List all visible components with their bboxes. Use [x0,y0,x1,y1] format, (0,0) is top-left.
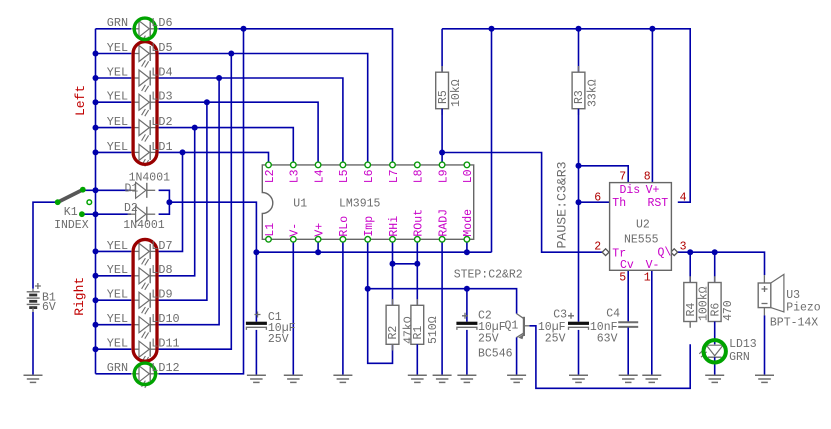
svg-text:LD2: LD2 [151,115,172,129]
svg-text:YEL: YEL [107,312,128,326]
svg-text:510Ω: 510Ω [427,316,440,344]
svg-text:LD5: LD5 [151,41,172,55]
svg-text:Mode: Mode [462,209,475,237]
svg-text:L9: L9 [437,169,450,183]
svg-text:RLo: RLo [338,216,351,237]
svg-text:10kΩ: 10kΩ [450,79,463,107]
svg-text:6: 6 [594,191,601,204]
svg-text:YEL: YEL [107,288,128,302]
svg-text:YEL: YEL [107,263,128,277]
svg-text:LD9: LD9 [151,288,172,302]
svg-text:Imp: Imp [363,216,376,237]
svg-text:33kΩ: 33kΩ [586,79,599,107]
svg-text:GRN: GRN [107,16,128,30]
svg-text:Q1: Q1 [505,320,519,333]
svg-text:L2: L2 [264,169,277,183]
svg-text:LD7: LD7 [151,239,172,253]
svg-text:YEL: YEL [107,41,128,55]
svg-text:LD12: LD12 [151,361,179,375]
svg-text:L5: L5 [338,169,351,183]
svg-text:LD8: LD8 [151,263,172,277]
svg-text:L1: L1 [264,223,277,237]
svg-text:R6: R6 [709,303,722,317]
svg-text:INDEX: INDEX [54,219,89,232]
svg-text:R2: R2 [387,326,400,340]
svg-text:LM3915: LM3915 [339,198,381,211]
svg-text:4: 4 [680,191,687,204]
svg-text:NE555: NE555 [624,234,659,247]
svg-text:L4: L4 [313,169,326,183]
svg-text:RHi: RHi [388,216,401,237]
svg-text:C4: C4 [606,308,620,321]
svg-text:YEL: YEL [107,90,128,104]
svg-text:D1: D1 [125,182,139,195]
svg-text:Th: Th [612,197,626,210]
svg-text:Dis: Dis [620,184,641,197]
svg-text:D2: D2 [124,202,138,215]
svg-text:5: 5 [619,272,626,285]
svg-text:RST: RST [648,197,669,210]
svg-text:LD10: LD10 [151,312,179,326]
svg-text:Right: Right [72,277,87,316]
svg-text:470: 470 [722,300,735,321]
svg-text:YEL: YEL [107,337,128,351]
svg-text:63V: 63V [597,333,618,346]
svg-text:25V: 25V [478,333,499,346]
svg-text:Cv: Cv [620,259,634,272]
svg-text:U2: U2 [636,219,650,232]
svg-text:25V: 25V [268,333,289,346]
svg-text:LD11: LD11 [151,337,179,351]
svg-text:25V: 25V [545,333,566,346]
svg-text:BC546: BC546 [478,348,513,361]
svg-text:STEP:C2&R2: STEP:C2&R2 [454,269,523,282]
svg-text:1N4001: 1N4001 [123,219,165,232]
svg-text:6V: 6V [42,301,56,314]
svg-text:C3: C3 [553,309,567,322]
svg-text:7: 7 [619,171,626,184]
svg-text:L0: L0 [462,169,475,183]
svg-text:1: 1 [644,272,651,285]
svg-text:L8: L8 [413,169,426,183]
svg-text:Piezo: Piezo [786,301,821,314]
svg-text:YEL: YEL [107,140,128,154]
svg-text:LD1: LD1 [151,140,172,154]
svg-text:R4: R4 [685,303,698,317]
svg-text:L7: L7 [388,169,401,183]
svg-text:LD3: LD3 [151,90,172,104]
svg-text:YEL: YEL [107,239,128,253]
svg-text:U3: U3 [786,289,800,302]
svg-text:U1: U1 [293,198,307,211]
svg-text:BPT-14X: BPT-14X [770,316,818,329]
svg-text:V+: V+ [646,184,660,197]
svg-text:R5: R5 [437,90,450,104]
svg-text:8: 8 [644,171,651,184]
svg-text:LD13: LD13 [729,338,757,351]
svg-text:Left: Left [73,85,88,116]
svg-text:GRN: GRN [729,351,750,364]
svg-text:R3: R3 [573,90,586,104]
svg-text:L6: L6 [363,169,376,183]
svg-text:PAUSE:C3&R3: PAUSE:C3&R3 [554,161,569,248]
svg-text:LD6: LD6 [151,16,172,30]
svg-text:V-: V- [289,223,302,237]
svg-text:2: 2 [594,240,601,253]
svg-text:GRN: GRN [107,361,128,375]
svg-text:LD4: LD4 [151,65,172,79]
svg-text:ROut: ROut [413,209,426,237]
svg-text:3: 3 [680,240,687,253]
svg-text:V-: V- [646,259,660,272]
svg-text:YEL: YEL [107,115,128,129]
svg-text:L3: L3 [289,169,302,183]
svg-text:V+: V+ [313,223,326,237]
svg-text:Q\: Q\ [658,247,672,260]
svg-text:RADJ: RADJ [437,209,450,237]
svg-text:R1: R1 [412,326,425,340]
svg-text:YEL: YEL [107,65,128,79]
svg-text:K1: K1 [64,206,78,219]
